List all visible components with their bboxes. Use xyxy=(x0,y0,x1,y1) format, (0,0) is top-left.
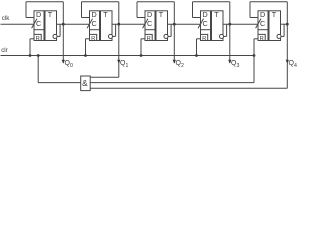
svg-text:clk: clk xyxy=(2,15,10,22)
svg-text:D: D xyxy=(36,10,41,19)
svg-text:Q0: Q0 xyxy=(65,60,73,69)
svg-text:D: D xyxy=(202,10,207,19)
svg-text:D: D xyxy=(260,10,265,19)
svg-text:R: R xyxy=(147,36,151,42)
svg-text:C: C xyxy=(202,19,207,28)
svg-text:C: C xyxy=(91,19,96,28)
svg-text:D: D xyxy=(91,10,96,19)
svg-text:C: C xyxy=(147,19,152,28)
svg-text:R: R xyxy=(91,36,95,42)
svg-text:R: R xyxy=(36,36,40,42)
svg-text:R: R xyxy=(202,36,206,42)
svg-text:T: T xyxy=(214,10,219,19)
svg-text:Q3: Q3 xyxy=(231,60,239,69)
svg-text:C: C xyxy=(260,19,265,28)
svg-text:D: D xyxy=(147,10,152,19)
svg-text:T: T xyxy=(103,10,108,19)
svg-text:T: T xyxy=(159,10,164,19)
svg-text:C: C xyxy=(36,19,41,28)
svg-text:R: R xyxy=(260,36,264,42)
svg-text:clr: clr xyxy=(1,47,8,54)
svg-text:Q1: Q1 xyxy=(120,60,128,69)
svg-text:Q4: Q4 xyxy=(289,60,297,69)
svg-text:&: & xyxy=(82,79,88,88)
svg-text:T: T xyxy=(48,10,53,19)
svg-text:Q2: Q2 xyxy=(176,60,184,69)
svg-text:T: T xyxy=(272,10,277,19)
